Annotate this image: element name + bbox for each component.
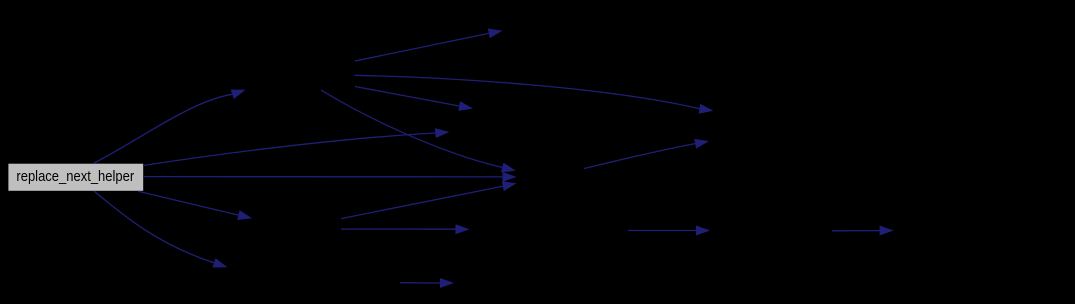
arrowhead into hub node (middle)	[503, 172, 517, 182]
edge node A to node F	[355, 33, 489, 61]
arrowhead into node P	[458, 101, 473, 111]
arrowhead into node D	[237, 210, 252, 220]
arrowhead into node D3	[696, 226, 710, 236]
node replace_next_helper	[8, 163, 144, 191]
arrowhead into node D2	[456, 224, 470, 234]
edge node A to node G (long curve)	[355, 75, 700, 108]
edge replace_next_helper to node D	[138, 191, 238, 215]
arrowhead into node H	[694, 139, 709, 149]
edge node A to node P	[355, 87, 459, 107]
edge node E to node E2 (short horizontal)	[400, 282, 440, 284]
edge node A to hub node (curve down-right)	[321, 90, 502, 167]
arrowhead into node F	[488, 29, 503, 39]
edge hub node to node H	[584, 144, 695, 169]
edge node D3 to node D4 (horizontal)	[832, 230, 880, 232]
arrowhead into node A	[231, 90, 246, 100]
arrowhead into hub node (bottom)	[502, 181, 517, 191]
arrowhead into node G	[699, 104, 714, 114]
edge replace_next_helper to node A (curve up)	[94, 94, 232, 163]
arrowhead into node D4	[880, 226, 894, 236]
edge replace_next_helper to node Q	[144, 133, 435, 165]
edge node D to node D2 (horizontal)	[341, 228, 456, 230]
arrowhead into node Q	[435, 128, 449, 138]
edge replace_next_helper to hub node (horizontal)	[144, 176, 503, 178]
arrowhead into hub node (top)	[501, 163, 516, 173]
arrowhead into node E	[212, 258, 227, 267]
edge node D to hub node	[341, 186, 503, 218]
edge node D2 to node D3 (horizontal)	[628, 230, 696, 232]
arrowhead into node E2	[440, 278, 454, 288]
svg-text:replace_next_helper: replace_next_helper	[16, 169, 134, 185]
edge replace_next_helper to node E (curve down)	[94, 191, 214, 263]
